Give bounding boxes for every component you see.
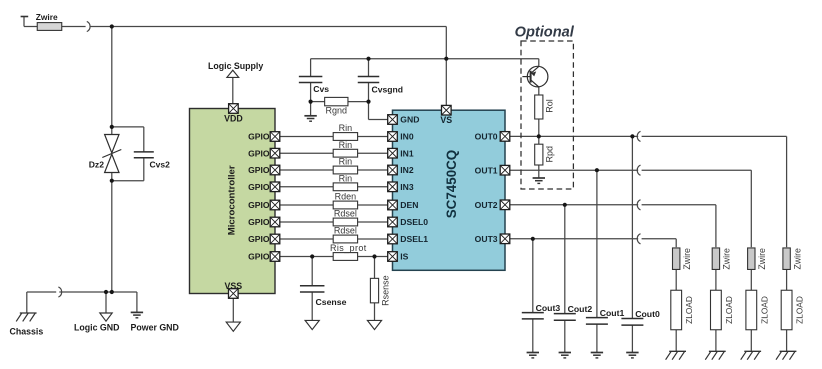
wire Cvs2 bottom xyxy=(112,158,144,181)
svg-text:GPIO: GPIO xyxy=(248,200,270,210)
svg-text:VS: VS xyxy=(440,115,452,125)
wire OUT3 row xyxy=(505,238,638,240)
wire ZLOAD3 to chassis xyxy=(750,330,752,352)
wire GPIO row 1 left xyxy=(275,136,333,138)
label GPIO 4 xyxy=(248,182,270,192)
chassis ground xyxy=(16,313,36,321)
label Zwire load 1 xyxy=(682,248,692,270)
label OUT0 xyxy=(475,132,498,142)
svg-text:Rin: Rin xyxy=(339,157,353,167)
net break arrow OUT3 xyxy=(637,234,640,244)
wire Cout0 to gnd xyxy=(631,325,633,352)
label VSS xyxy=(224,281,242,291)
svg-text:Cvs2: Cvs2 xyxy=(150,160,171,170)
svg-text:DEN: DEN xyxy=(400,200,418,210)
svg-text:Csense: Csense xyxy=(316,297,347,307)
svg-text:Rdsel: Rdsel xyxy=(334,226,357,236)
svg-text:GPIO: GPIO xyxy=(248,148,270,158)
pin IN0 xyxy=(388,132,398,142)
label Cout2 xyxy=(568,304,593,314)
label GPIO 5 xyxy=(248,200,270,210)
junction Cout1 xyxy=(595,168,599,172)
wire Cvs stem xyxy=(310,59,312,77)
svg-text:Zwire: Zwire xyxy=(682,248,692,270)
label VDD xyxy=(224,113,243,123)
resistor Zwire load 1 xyxy=(673,248,680,270)
pin GPIO 2 xyxy=(270,148,280,158)
label Optional xyxy=(515,24,575,40)
svg-text:Cout0: Cout0 xyxy=(635,309,660,319)
svg-text:Rsense: Rsense xyxy=(380,275,390,306)
wire Cout3 to gnd xyxy=(532,319,534,352)
svg-text:Cout2: Cout2 xyxy=(568,304,593,314)
wire Rsense to gnd xyxy=(374,303,376,321)
wire Cout0 stem xyxy=(631,136,633,318)
transistor Q1 xyxy=(522,66,547,87)
resistor Rin row 2 xyxy=(333,149,357,157)
IC SC7450CQ body xyxy=(393,110,506,270)
svg-text:Rin: Rin xyxy=(339,174,353,184)
wire OUT1 row xyxy=(505,169,638,171)
label VS xyxy=(440,115,452,125)
label Cout3 xyxy=(536,303,561,313)
svg-text:Zwire: Zwire xyxy=(792,248,802,270)
pin OUT1 xyxy=(500,165,510,175)
resistor Rpd xyxy=(535,144,543,165)
svg-text:Logic Supply: Logic Supply xyxy=(208,61,263,71)
wire gnd rail xyxy=(59,292,137,312)
wire Cout2 to gnd xyxy=(564,320,566,352)
svg-text:GPIO: GPIO xyxy=(248,217,270,227)
svg-text:Microcontroller: Microcontroller xyxy=(227,165,238,235)
pin GPIO 4 xyxy=(270,182,280,192)
label DEN xyxy=(400,200,418,210)
wire row 2 to chip xyxy=(358,152,393,154)
svg-text:Rdsel: Rdsel xyxy=(334,209,357,219)
wire row 8 to chip xyxy=(358,256,393,258)
resistor Zwire load 3 xyxy=(748,248,755,270)
wire Cvs to Rgnd xyxy=(310,83,312,116)
label Rpd xyxy=(544,146,554,163)
svg-text:IN2: IN2 xyxy=(400,165,414,175)
label SC7450CQ xyxy=(444,150,459,218)
capacitor Cvs xyxy=(299,77,323,83)
svg-text:Rin: Rin xyxy=(339,140,353,150)
label Rin row 3 xyxy=(339,157,353,167)
wire Cout2 stem xyxy=(564,205,566,314)
wire OUT2 row xyxy=(505,204,638,206)
net break arrow OUT0 xyxy=(637,131,640,141)
label Cout0 xyxy=(635,309,660,319)
pin GPIO 8 xyxy=(270,252,280,262)
pin GPIO 3 xyxy=(270,165,280,175)
label ZLOAD 1 xyxy=(684,296,694,324)
label GND xyxy=(400,115,419,125)
ground VSS triangle xyxy=(226,322,240,331)
wire Cout1 stem xyxy=(596,170,598,317)
wire Zwire1 to ZLOAD xyxy=(675,270,677,291)
junction Csense xyxy=(310,254,314,258)
label Rin row 4 xyxy=(339,174,353,184)
junction Dz2 bottom xyxy=(110,179,114,183)
ground Rsense triangle xyxy=(367,320,381,329)
resistor Ris_prot row 8 xyxy=(333,253,357,261)
pin VSS xyxy=(229,289,239,299)
label Dz2 xyxy=(89,160,105,170)
pin OUT0 xyxy=(500,132,510,142)
label DSEL1 xyxy=(400,234,428,244)
wire GPIO row 3 left xyxy=(275,169,333,171)
ground Cout1 earth xyxy=(591,353,603,358)
terminal input xyxy=(21,16,29,18)
label IN1 xyxy=(400,148,414,158)
label Zwire load 2 xyxy=(722,248,732,270)
wire Rol to OUT0 xyxy=(538,87,540,136)
label GPIO 3 xyxy=(248,165,270,175)
optional dashed box xyxy=(521,41,573,189)
label IN2 xyxy=(400,165,414,175)
label OUT1 xyxy=(475,165,498,175)
label Rin row 2 xyxy=(339,140,353,150)
wire VS supply top rail xyxy=(24,17,37,27)
label GPIO 1 xyxy=(248,132,270,142)
svg-text:IN3: IN3 xyxy=(400,182,414,192)
svg-text:Logic GND: Logic GND xyxy=(74,323,119,333)
wire logic gnd stem xyxy=(105,292,107,313)
label Cvs xyxy=(313,84,329,94)
resistor Rdsel row 6 xyxy=(333,218,357,226)
chassis ground load 3 xyxy=(741,351,761,359)
junction Cvs Rgnd xyxy=(309,100,313,104)
wire Zwire4 to ZLOAD xyxy=(786,270,788,291)
svg-text:Cvs: Cvs xyxy=(313,84,329,94)
label Zwire load 3 xyxy=(757,248,767,270)
wire GPIO row 5 left xyxy=(275,204,333,206)
ground Cout0 earth xyxy=(626,353,638,358)
wire Dz2 to ground rail xyxy=(111,173,113,293)
wire row 7 to chip xyxy=(358,238,393,240)
label Ris_prot row 8 xyxy=(330,243,367,253)
wire Zwire3 to ZLOAD xyxy=(750,270,752,291)
label Zwire load 4 xyxy=(792,248,802,270)
wire GPIO row 7 left xyxy=(275,238,333,240)
label GPIO 7 xyxy=(248,234,270,244)
resistor Zwire input xyxy=(37,23,62,31)
junction Rgnd Cvsgnd xyxy=(366,100,370,104)
pin GND xyxy=(388,115,398,125)
junction Cout3 xyxy=(531,237,535,241)
svg-text:Cout3: Cout3 xyxy=(536,303,561,313)
svg-text:Ris_prot: Ris_prot xyxy=(330,243,367,253)
svg-text:GPIO: GPIO xyxy=(248,132,270,142)
svg-text:Zwire: Zwire xyxy=(36,12,58,22)
net break arrow OUT2 xyxy=(637,200,640,210)
power ground symbol xyxy=(131,312,143,317)
pin DEN xyxy=(388,200,398,210)
label Zwire input xyxy=(36,12,58,22)
svg-text:SC7450CQ: SC7450CQ xyxy=(444,150,459,218)
wire OUT0 row xyxy=(505,135,638,137)
wire Rpd top xyxy=(538,136,540,144)
wire Cvsgnd to GND pin xyxy=(369,83,393,120)
diode Dz2 xyxy=(102,135,121,173)
wire OUT3 to Zwire col xyxy=(642,239,677,247)
chassis ground load 1 xyxy=(666,351,686,359)
label Logic Supply xyxy=(208,61,263,71)
label Microcontroller xyxy=(227,165,238,235)
junction power rail bottom xyxy=(110,290,114,294)
capacitor Cvs2 xyxy=(134,152,154,158)
label OUT3 xyxy=(475,234,498,244)
label IN3 xyxy=(400,182,414,192)
label ZLOAD 2 xyxy=(724,296,734,324)
wire OUT2 to Zwire col xyxy=(642,205,716,247)
ground Csense triangle xyxy=(305,320,319,329)
svg-text:ZLOAD: ZLOAD xyxy=(759,296,769,324)
label Cvsgnd xyxy=(372,84,404,94)
junction logic gnd xyxy=(104,290,108,294)
svg-text:Cvsgnd: Cvsgnd xyxy=(372,84,404,94)
wire supply rail to VS xyxy=(90,27,446,111)
svg-text:OUT1: OUT1 xyxy=(475,165,498,175)
resistor Rgnd xyxy=(325,97,348,105)
label IS xyxy=(400,252,408,262)
wire ZLOAD4 to chassis xyxy=(786,330,788,352)
wire Cout1 to gnd xyxy=(596,324,598,352)
pin IN2 xyxy=(388,165,398,175)
pin GPIO 1 xyxy=(270,132,280,142)
label OUT2 xyxy=(475,200,498,210)
label ZLOAD 4 xyxy=(795,296,805,324)
label Rdsel row 6 xyxy=(334,209,357,219)
wire ZLOAD1 to chassis xyxy=(675,330,677,352)
chassis ground load 2 xyxy=(705,351,725,359)
resistor Zwire load 4 xyxy=(783,248,790,270)
resistor Rdsel row 7 xyxy=(333,235,357,243)
svg-text:ZLOAD: ZLOAD xyxy=(724,296,734,324)
supply Logic Supply symbol xyxy=(227,70,239,77)
chassis ground load 4 xyxy=(776,351,796,359)
wire row 4 to chip xyxy=(358,186,393,188)
ground Cout2 earth xyxy=(559,353,571,358)
resistor Rin row 1 xyxy=(333,133,357,141)
pin IS xyxy=(388,252,398,262)
label GPIO 2 xyxy=(248,148,270,158)
capacitor Cvsgnd xyxy=(358,77,380,83)
pin GPIO 5 xyxy=(270,200,280,210)
wire Zwire to VS pin xyxy=(62,26,86,28)
label Rden row 5 xyxy=(335,192,357,202)
ground Rpd earth xyxy=(533,178,545,183)
svg-text:OUT0: OUT0 xyxy=(475,132,498,142)
logic ground symbol xyxy=(100,313,112,321)
wire Cvs rail xyxy=(311,59,539,67)
label Cvs2 xyxy=(150,160,171,170)
label GPIO 6 xyxy=(248,217,270,227)
pin DSEL1 xyxy=(388,234,398,244)
svg-text:VDD: VDD xyxy=(224,113,243,123)
pin OUT2 xyxy=(500,200,510,210)
pin OUT3 xyxy=(500,234,510,244)
net break arrow supply xyxy=(87,21,90,31)
wire GPIO row 4 left xyxy=(275,186,333,188)
wire row 3 to chip xyxy=(358,169,393,171)
wire supply to Dz2 xyxy=(111,27,113,135)
resistor Rin row 4 xyxy=(333,183,357,191)
svg-text:GPIO: GPIO xyxy=(248,182,270,192)
svg-text:IN1: IN1 xyxy=(400,148,414,158)
pin GPIO 6 xyxy=(270,217,280,227)
svg-text:IS: IS xyxy=(400,252,408,262)
resistor Rol xyxy=(535,95,543,119)
wire GPIO row 2 left xyxy=(275,152,333,154)
label DSEL0 xyxy=(400,217,428,227)
pin IN3 xyxy=(388,182,398,192)
junction Dz2 top xyxy=(110,125,114,129)
svg-text:Rgnd: Rgnd xyxy=(326,105,348,115)
pin IN1 xyxy=(388,148,398,158)
wire row 1 to chip xyxy=(358,136,393,138)
wire Zwire2 to ZLOAD xyxy=(715,270,717,291)
svg-text:GPIO: GPIO xyxy=(248,252,270,262)
wire Csense stem xyxy=(311,257,313,286)
wire row 5 to chip xyxy=(358,204,393,206)
resistor ZLOAD 1 xyxy=(671,290,682,330)
label ZLOAD 3 xyxy=(759,296,769,324)
wire row 6 to chip xyxy=(358,221,393,223)
wire OUT0 to Zwire col xyxy=(642,136,787,247)
svg-text:ZLOAD: ZLOAD xyxy=(795,296,805,324)
ground Cout3 earth xyxy=(527,353,539,358)
svg-text:VSS: VSS xyxy=(224,281,242,291)
svg-text:GPIO: GPIO xyxy=(248,165,270,175)
resistor Rin row 3 xyxy=(333,166,357,174)
wire Csense to gnd xyxy=(311,292,313,320)
resistor Zwire load 2 xyxy=(712,248,719,270)
capacitor Cout3 xyxy=(522,313,544,319)
label Rol xyxy=(544,99,554,113)
wire VSS to gnd xyxy=(232,294,234,323)
label Rin row 1 xyxy=(339,123,353,133)
wire Cvsgnd stem xyxy=(368,59,370,77)
label Power GND xyxy=(131,323,179,333)
svg-text:Rin: Rin xyxy=(339,123,353,133)
label Rdsel row 7 xyxy=(334,226,357,236)
wire Rgnd left xyxy=(311,101,325,103)
pin VS xyxy=(442,105,452,115)
svg-text:OUT2: OUT2 xyxy=(475,200,498,210)
wire ZLOAD2 to chassis xyxy=(715,330,717,352)
svg-text:DSEL0: DSEL0 xyxy=(400,217,428,227)
svg-text:Dz2: Dz2 xyxy=(89,160,105,170)
junction Cvsgnd top xyxy=(366,57,370,61)
resistor Rden row 5 xyxy=(333,201,357,209)
label Rsense xyxy=(380,275,390,306)
pin GPIO 7 xyxy=(270,234,280,244)
label Cout1 xyxy=(600,308,625,318)
resistor ZLOAD 3 xyxy=(746,290,757,330)
junction Cout0 xyxy=(630,134,634,138)
svg-text:Rpd: Rpd xyxy=(544,146,554,163)
resistor ZLOAD 2 xyxy=(711,290,722,330)
wire Cvs2 top xyxy=(112,127,144,152)
wire GPIO row 8 left xyxy=(275,256,333,258)
wire Cout3 stem xyxy=(532,239,534,313)
svg-text:Zwire: Zwire xyxy=(722,248,732,270)
svg-text:Rden: Rden xyxy=(335,192,357,202)
label Chassis xyxy=(10,327,44,337)
wire Rsense stem xyxy=(374,257,376,279)
pin DSEL0 xyxy=(388,217,398,227)
wire Rgnd right xyxy=(348,101,369,103)
label Logic GND xyxy=(74,323,119,333)
svg-text:GPIO: GPIO xyxy=(248,234,270,244)
svg-text:Cout1: Cout1 xyxy=(600,308,625,318)
label GPIO 8 xyxy=(248,252,270,262)
junction supply/Dz2 xyxy=(110,24,114,28)
net break arrow OUT1 xyxy=(637,165,640,175)
ground Rgnd earth xyxy=(304,116,316,121)
svg-text:Power GND: Power GND xyxy=(131,323,179,333)
svg-text:Zwire: Zwire xyxy=(757,248,767,270)
svg-text:Rol: Rol xyxy=(544,99,554,113)
wire chassis to gnd rail xyxy=(27,292,56,313)
net break arrow gnd rail xyxy=(58,287,61,297)
capacitor Cout2 xyxy=(554,314,576,321)
capacitor Cout0 xyxy=(621,319,643,326)
svg-text:Optional: Optional xyxy=(515,24,575,40)
wire logic supply to VDD xyxy=(232,77,234,109)
resistor ZLOAD 4 xyxy=(781,290,792,330)
wire OUT1 to Zwire col xyxy=(642,170,752,247)
junction VS rail xyxy=(444,57,448,61)
svg-text:OUT3: OUT3 xyxy=(475,234,498,244)
junction Rol OUT0 xyxy=(537,134,541,138)
svg-text:GND: GND xyxy=(400,115,419,125)
label Csense xyxy=(316,297,347,307)
label IN0 xyxy=(400,132,414,142)
junction Rsense xyxy=(372,254,376,258)
resistor Rsense xyxy=(370,278,378,303)
svg-text:ZLOAD: ZLOAD xyxy=(684,296,694,324)
capacitor Cout1 xyxy=(586,318,608,325)
junction Cout2 xyxy=(563,203,567,207)
pin VDD xyxy=(229,104,239,114)
svg-text:Chassis: Chassis xyxy=(10,327,44,337)
svg-text:IN0: IN0 xyxy=(400,132,414,142)
label Rgnd xyxy=(326,105,348,115)
microcontroller U2 body xyxy=(190,109,276,294)
svg-text:DSEL1: DSEL1 xyxy=(400,234,428,244)
wire Rpd to gnd xyxy=(538,165,540,178)
wire GPIO row 6 left xyxy=(275,221,333,223)
capacitor Csense xyxy=(300,286,325,292)
